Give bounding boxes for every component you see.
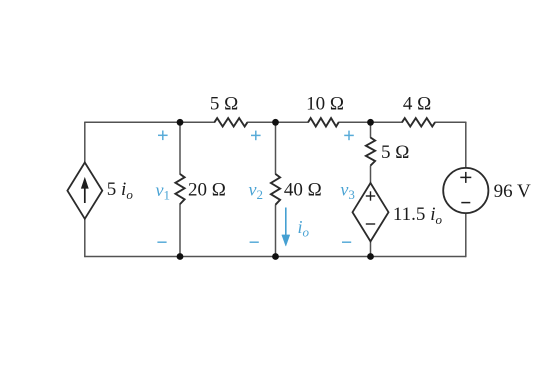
svg-text:5 Ω: 5 Ω bbox=[381, 142, 409, 163]
svg-text:5 io: 5 io bbox=[107, 179, 134, 202]
svg-text:96 V: 96 V bbox=[494, 181, 531, 202]
svg-text:4 Ω: 4 Ω bbox=[403, 94, 431, 115]
svg-text:40 Ω: 40 Ω bbox=[284, 180, 322, 201]
svg-text:v1: v1 bbox=[156, 180, 171, 203]
svg-text:v2: v2 bbox=[249, 180, 264, 203]
svg-text:5 Ω: 5 Ω bbox=[210, 94, 238, 115]
svg-text:20 Ω: 20 Ω bbox=[188, 179, 226, 200]
svg-text:v3: v3 bbox=[340, 180, 355, 203]
svg-text:10 Ω: 10 Ω bbox=[306, 94, 344, 115]
svg-text:io: io bbox=[298, 217, 310, 240]
svg-text:11.5 io: 11.5 io bbox=[393, 204, 443, 227]
